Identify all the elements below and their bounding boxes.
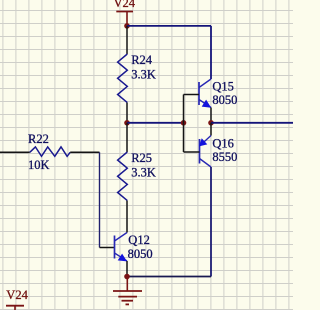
resistor R25 body [118,152,128,201]
svg-text:Q15: Q15 [212,79,234,93]
svg-text:R22: R22 [28,132,49,146]
power symbol V24 (top) [114,0,136,26]
wire R25 bottom pin to Q12 collector [126,201,128,233]
wire R22 input [0,151,30,153]
wire Q16 collector drop [210,167,212,277]
wire output [211,122,293,124]
wire bases bus vertical [183,95,185,153]
wire Q12 base pin [100,247,115,249]
wire Q15 collector drop [210,26,212,79]
svg-text:R24: R24 [131,53,153,67]
junction V24 rail node [124,23,130,29]
svg-text:3.3K: 3.3K [131,166,156,180]
power symbol V24 (bottom-left) [6,288,29,310]
svg-text:Q16: Q16 [212,136,234,150]
junction bases bus node [181,120,187,126]
wire Q16 emitter pin [210,123,212,136]
svg-text:R25: R25 [131,151,152,165]
wire R24 top pin [126,26,128,54]
ground [113,277,142,305]
svg-text:8050: 8050 [128,247,153,261]
svg-text:8550: 8550 [212,150,237,164]
junction R24/R25 node [124,120,130,126]
svg-text:V24: V24 [6,288,28,302]
transistor Q15 [184,79,212,108]
svg-text:V24: V24 [114,0,136,10]
wire bottom rail [127,276,211,278]
wire top rail [127,25,211,27]
wire Q12 emitter pin [126,261,128,277]
svg-text:8050: 8050 [212,93,237,107]
wire Q15 emitter pin [210,108,212,123]
svg-text:Q12: Q12 [128,233,150,247]
junction Q12 emitter / output ground node [124,274,130,280]
svg-text:10K: 10K [28,158,50,172]
junction output node [208,120,214,126]
transistor Q12 [115,233,128,262]
resistor R24 body [118,54,128,103]
wire R22 to corner [70,151,99,153]
resistor R22 body [30,147,70,156]
wire corner down to Q12 base [99,152,101,247]
wire R25 top pin [126,123,128,152]
transistor Q16 [184,136,212,168]
svg-text:3.3K: 3.3K [131,68,156,82]
wire base drive [127,122,184,124]
wire R24 bottom pin [126,103,128,123]
